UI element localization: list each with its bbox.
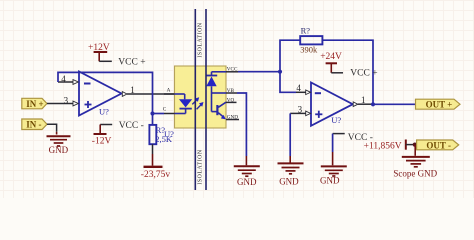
- pin 4 of U3: [296, 83, 311, 94]
- wire U2 VCC to junction: [238, 71, 280, 73]
- svg-text:1: 1: [130, 85, 135, 95]
- svg-text:GND: GND: [49, 145, 69, 155]
- isolation barrier line 2: [205, 9, 207, 190]
- pin 3 of U3: [290, 104, 310, 115]
- svg-text:3: 3: [298, 104, 303, 114]
- port OUT+: [416, 99, 461, 109]
- svg-text:1: 1: [361, 95, 366, 105]
- svg-text:+11,856V: +11,856V: [364, 141, 402, 151]
- svg-text:4: 4: [61, 74, 66, 84]
- ground GND4: [320, 166, 347, 185]
- svg-text:+24V: +24V: [320, 52, 342, 62]
- svg-text:IN -: IN -: [26, 120, 41, 130]
- junction node feedback: [278, 70, 282, 74]
- pin C of U2: [163, 107, 175, 114]
- wire R1 to -23,75v: [152, 144, 154, 165]
- isolation barrier line 1: [194, 9, 196, 190]
- wire +11,856V to OUT-: [406, 144, 415, 146]
- wire U1 output to optocoupler pin A: [140, 93, 185, 95]
- power port +11,856V: [364, 140, 406, 152]
- svg-text:IN +: IN +: [26, 99, 43, 109]
- wire feedback loop R2: [280, 40, 300, 71]
- pin 3 of U1: [58, 95, 78, 106]
- light arrows inside U2: [192, 97, 203, 109]
- svg-text:A: A: [167, 87, 171, 93]
- pin 1 of U3: [353, 95, 371, 107]
- junction node at OUT-: [413, 143, 417, 147]
- wire IN+ to pin 3: [47, 103, 58, 105]
- resistor R1: [149, 125, 172, 144]
- pin A of U2: [164, 87, 175, 94]
- svg-text:VO: VO: [227, 98, 235, 104]
- phototransistor inside U2: [212, 93, 227, 119]
- svg-text:4: 4: [296, 83, 301, 93]
- junction node at U3 output: [371, 102, 375, 106]
- svg-text:GND: GND: [227, 115, 238, 121]
- svg-text:U?: U?: [99, 107, 109, 117]
- wire junction down to R1: [152, 114, 154, 126]
- optocoupler U2 body: [175, 66, 227, 128]
- pin VO of U2: [226, 98, 237, 104]
- wire pin 3 of U3 to ground: [289, 113, 291, 162]
- power port +12V: [88, 43, 112, 61]
- port OUT-: [417, 140, 459, 150]
- svg-text:GND: GND: [279, 176, 299, 186]
- svg-text:ISOLATION: ISOLATION: [197, 22, 203, 57]
- photodiode inside U2: [206, 72, 226, 112]
- svg-text:GND: GND: [320, 175, 340, 185]
- ground GND3: [278, 163, 304, 186]
- ground GND1: [47, 136, 71, 155]
- pin VCC of U2: [226, 67, 240, 73]
- svg-text:VCC: VCC: [227, 67, 238, 73]
- junction node at R1 top: [150, 111, 154, 115]
- resistor R2: [300, 25, 322, 54]
- svg-text:VCC -: VCC -: [119, 121, 144, 131]
- svg-text:-12V: -12V: [92, 137, 112, 147]
- power port -23,75v: [141, 167, 171, 180]
- svg-text:VCC +: VCC +: [118, 58, 145, 68]
- pin 4 of U1: [58, 74, 78, 85]
- wire down to Scope GND: [414, 145, 416, 156]
- svg-text:3: 3: [64, 95, 69, 105]
- svg-text:VB: VB: [227, 88, 235, 94]
- wire U2 VB to ground: [237, 93, 246, 165]
- svg-text:GND: GND: [237, 177, 257, 187]
- wire IN- to ground: [47, 124, 57, 134]
- svg-text:VCC +: VCC +: [350, 69, 377, 79]
- svg-text:OUT +: OUT +: [426, 99, 453, 109]
- wire VCC- elbow to ground: [333, 134, 345, 166]
- svg-text:390k: 390k: [300, 45, 318, 55]
- svg-text:+12V: +12V: [88, 43, 110, 53]
- wire junction to pin 4 of U3: [280, 72, 296, 93]
- wire junction to optocoupler pin C: [153, 113, 165, 115]
- port IN+: [22, 98, 47, 109]
- wire U1 feedback loop: [58, 72, 153, 113]
- op-amp U1: [79, 72, 122, 117]
- port IN-: [22, 119, 47, 130]
- pin VB of U2: [226, 88, 237, 94]
- svg-text:-23,75v: -23,75v: [141, 170, 171, 180]
- wire R2 to U3 output: [322, 40, 373, 104]
- svg-text:U?: U?: [331, 115, 341, 125]
- pin 1 of U1: [122, 85, 140, 96]
- power port -12V: [92, 125, 112, 147]
- svg-text:U?: U?: [164, 129, 174, 139]
- wire U3 output to OUT+: [373, 103, 416, 105]
- LED inside U2: [175, 94, 193, 114]
- op-amp U3: [311, 83, 353, 126]
- svg-text:ISOLATION: ISOLATION: [197, 149, 203, 184]
- ground Scope GND: [393, 157, 437, 179]
- svg-text:Scope GND: Scope GND: [393, 169, 437, 179]
- svg-text:OUT -: OUT -: [426, 140, 451, 150]
- power port +24V: [320, 52, 343, 73]
- svg-text:R?: R?: [301, 25, 311, 35]
- svg-text:C: C: [163, 107, 167, 113]
- ground GND2: [234, 166, 260, 187]
- pin GND of U2: [226, 115, 239, 121]
